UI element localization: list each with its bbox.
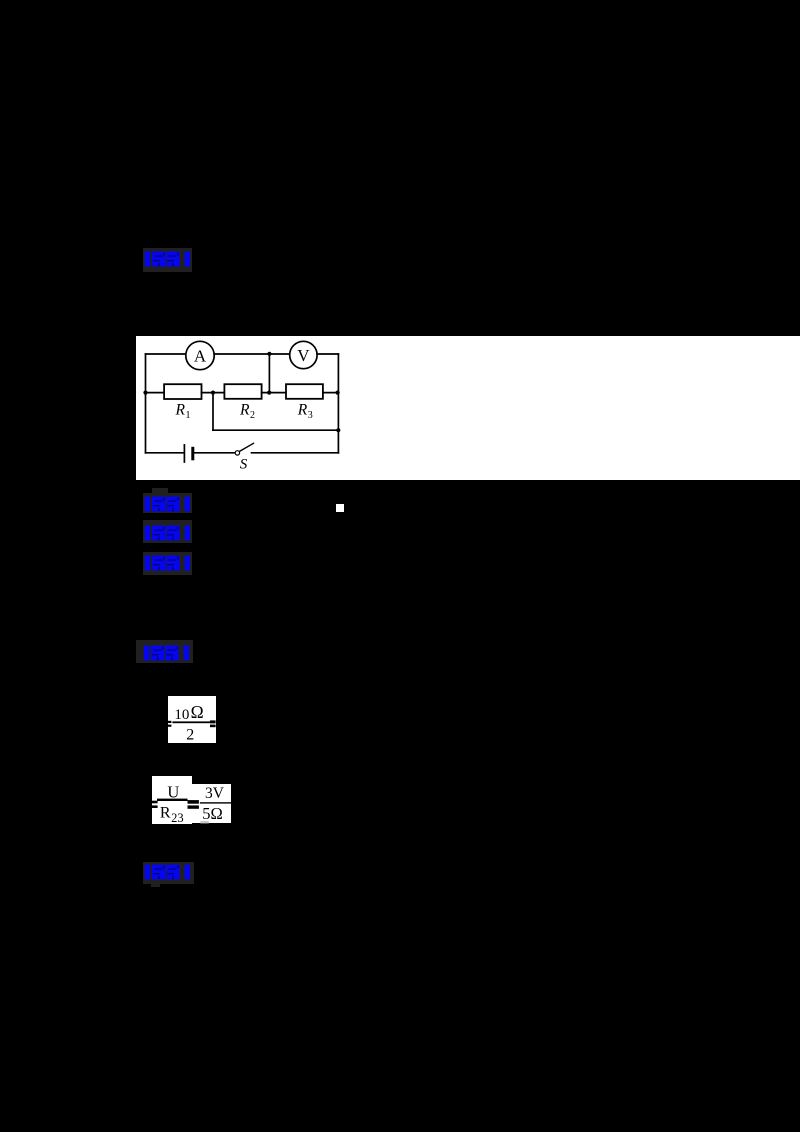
wire R2 to R3 (262, 392, 286, 394)
svg-text:R: R (175, 402, 186, 419)
wire left vertical (145, 354, 147, 453)
svg-text:10: 10 (174, 706, 189, 722)
switch S (235, 443, 253, 472)
svg-text:Ω: Ω (191, 702, 204, 722)
junction node left of R1 (143, 391, 147, 395)
wire into R1 (146, 392, 165, 394)
fraction bar (172, 721, 210, 723)
svg-text:2: 2 (186, 726, 194, 743)
junction node top (between A and V) (267, 352, 271, 356)
svg-text:S: S (240, 457, 248, 473)
wire switch to right (252, 452, 339, 454)
svg-text:23: 23 (171, 811, 184, 824)
wire battery to switch (194, 452, 235, 454)
equals sign middle bold (187, 800, 198, 804)
svg-text:R: R (239, 402, 250, 419)
svg-text:R: R (159, 805, 170, 822)
equals sign left fragment (168, 720, 171, 722)
formula image R23 equals 10 ohm over 2 (168, 696, 216, 744)
wire bottom left (146, 452, 185, 454)
svg-text:1: 1 (186, 410, 191, 421)
faint artifact (200, 821, 209, 823)
equals sign right fragment (210, 720, 216, 723)
node label solution-tag 【解答】 (136, 640, 193, 663)
junction node between R2 and R3 (267, 391, 271, 395)
junction node between R1 and R2 (211, 391, 215, 395)
svg-text:2: 2 (250, 410, 255, 421)
svg-text:V: V (297, 346, 310, 365)
svg-text:R: R (297, 402, 308, 419)
wire from R1-R2 junction down (212, 393, 214, 431)
svg-text:3: 3 (308, 410, 313, 421)
node label topic-tag 【专题】 (143, 520, 192, 543)
fraction bar U/R23 (157, 799, 188, 801)
node small white square marker (336, 504, 344, 512)
node label answer-tag 【答案】 (143, 248, 192, 272)
junction node right of R3 (336, 391, 340, 395)
svg-text:A: A (194, 347, 207, 366)
fraction bar 3V/5ohm (199, 802, 231, 803)
circuit white panel (136, 336, 800, 480)
wire horizontal bypass (213, 429, 338, 431)
node label analysis-tag 【分析】 (143, 552, 192, 575)
wire R3 to right vertical (323, 392, 339, 394)
wire top left (146, 353, 187, 355)
resistor R3 (286, 384, 323, 421)
node label comment-tag 【点评】 (143, 862, 194, 884)
equals sign left fragment (152, 801, 158, 804)
wire top middle (214, 353, 290, 355)
ammeter A (186, 341, 214, 369)
svg-text:U: U (167, 782, 179, 801)
equals sign right fragment (231, 802, 234, 804)
wire right vertical (337, 354, 339, 453)
wire R1 to R2 (202, 392, 225, 394)
formula image I equals U over R23 equals 3V over 5 ohm (152, 776, 192, 824)
resistor R2 (224, 384, 261, 421)
voltmeter V (290, 341, 317, 368)
battery cell (184, 445, 192, 462)
wire junction down to middle row (268, 354, 270, 393)
resistor R1 (164, 384, 201, 421)
junction node bypass right (336, 428, 340, 432)
node label examined-points-tag 【考点】 (143, 493, 192, 513)
svg-text:5Ω: 5Ω (202, 804, 223, 823)
wire top right (317, 353, 338, 355)
svg-text:3V: 3V (205, 785, 225, 802)
